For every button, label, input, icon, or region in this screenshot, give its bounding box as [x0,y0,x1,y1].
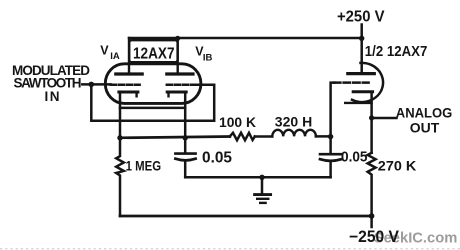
svg-text:−250 V: −250 V [349,228,399,246]
svg-text:320 H: 320 H [275,114,312,129]
svg-text:V: V [100,43,109,57]
svg-text:12AX7: 12AX7 [133,46,175,63]
svg-text:IN: IN [45,89,60,104]
svg-text:0.05: 0.05 [202,149,232,166]
svg-text:1 MEG: 1 MEG [126,158,162,173]
svg-text:OUT: OUT [410,119,440,135]
svg-text:+250 V: +250 V [337,9,385,26]
svg-text:IA: IA [110,51,120,62]
svg-text:0.05: 0.05 [341,149,368,165]
svg-text:IB: IB [203,53,213,64]
svg-text:270 K: 270 K [378,158,417,173]
svg-text:100 K: 100 K [219,115,256,130]
svg-text:ANALOG: ANALOG [396,104,453,120]
svg-text:1/2 12AX7: 1/2 12AX7 [365,44,428,60]
